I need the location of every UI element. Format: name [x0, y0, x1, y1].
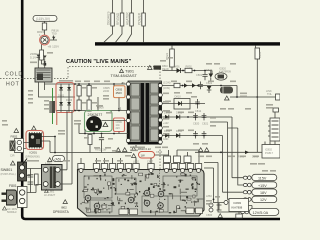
highlight box bridge (red)	[56, 83, 74, 113]
capacitor C805 highlight (orange)	[114, 86, 126, 98]
svg-text:+12V: +12V	[163, 122, 169, 125]
svg-text:C801: C801	[196, 73, 203, 77]
wire	[44, 21, 46, 23]
board pin row	[78, 158, 202, 173]
svg-text:2200: 2200	[103, 89, 110, 93]
svg-text:D801: D801	[174, 65, 181, 69]
AC inlet label	[3, 207, 7, 211]
wire secondary row1	[162, 70, 212, 72]
board bottom connector boxes	[119, 209, 128, 215]
transformer right pins	[158, 84, 162, 145]
highlight oval R820 (red)	[139, 152, 155, 159]
wire bus left thick	[22, 0, 280, 219]
output pill +15V	[243, 182, 276, 188]
tiny label texture	[2, 52, 276, 205]
connector pin P1 top	[111, 13, 115, 26]
svg-text:COLD: COLD	[5, 72, 23, 78]
output pill 18V	[243, 189, 276, 195]
wire	[104, 26, 113, 42]
svg-text:(A5): (A5)	[55, 157, 61, 161]
svg-text:RF/GND: RF/GND	[116, 12, 120, 25]
capacitor C823 dark	[220, 87, 233, 94]
switch SW801 warning	[11, 161, 16, 165]
svg-text:POWER: POWER	[138, 12, 142, 25]
wire secondary row2 CON	[162, 85, 237, 87]
vertical feed to reg	[211, 71, 213, 76]
board isolation dotted	[159, 170, 161, 213]
capacitor C813 dark	[50, 101, 56, 113]
board label I802	[63, 200, 67, 204]
capacitor C824 C825	[193, 131, 206, 139]
svg-text:DP900XTA: DP900XTA	[53, 210, 70, 214]
svg-text:(PUSH-PULL): (PUSH-PULL)	[1, 173, 16, 176]
svg-text:TNL: TNL	[267, 92, 272, 96]
svg-text:IC802: IC802	[265, 148, 272, 152]
capacitor C806	[87, 100, 91, 111]
warning + part by dashed line	[148, 66, 153, 70]
opto feedback box	[262, 145, 280, 159]
svg-text:TSM-4842AST: TSM-4842AST	[111, 73, 138, 78]
diode D811	[165, 115, 169, 120]
junction	[44, 61, 46, 63]
wire red net	[56, 112, 58, 125]
svg-text:C817: C817	[147, 160, 154, 164]
capacitor C809 highlight (red)	[114, 118, 125, 132]
gnd diode	[207, 86, 212, 90]
svg-text:#1: #1	[118, 107, 122, 111]
X capacitors	[28, 169, 34, 193]
IC801 warning	[32, 126, 37, 130]
diode D813 D814	[165, 133, 169, 138]
svg-text:5.1V: 5.1V	[30, 56, 36, 60]
connector pin P4 POWER	[142, 13, 146, 26]
connector header wires top	[113, 0, 144, 13]
regulator IC803	[229, 199, 249, 212]
svg-text:D820: D820	[206, 68, 213, 72]
svg-text:SW801: SW801	[1, 168, 13, 172]
error amp block right	[270, 118, 280, 141]
svg-text:(CON): (CON)	[163, 87, 170, 90]
boxed diodes D810	[174, 99, 190, 110]
wire	[44, 30, 46, 36]
wire	[127, 26, 132, 42]
transformer bottom labels	[132, 147, 136, 158]
module board I802	[78, 170, 205, 217]
svg-text:C820: C820	[193, 122, 200, 126]
svg-text:(CON): (CON)	[163, 81, 171, 85]
wire	[230, 86, 276, 98]
warning triangles	[116, 148, 127, 152]
svg-text:C816: C816	[156, 150, 163, 154]
svg-text:+15V: +15V	[258, 184, 267, 188]
svg-text:750: 750	[52, 32, 57, 36]
wire AC to bridge	[44, 84, 46, 90]
svg-text:(DP800/900): (DP800/900)	[25, 155, 40, 159]
transistor Q803	[41, 36, 48, 43]
live mains bus bar	[95, 42, 280, 45]
fuse F802 label	[14, 129, 19, 133]
switch connector	[18, 162, 27, 181]
wire	[50, 36, 57, 41]
highlight box Q801 (green)	[85, 111, 113, 132]
transformer T801 body	[127, 81, 162, 145]
svg-text:D801: D801	[58, 94, 65, 98]
AC inlet plug	[2, 190, 17, 205]
wire	[136, 145, 169, 164]
svg-text:(115V-5V): (115V-5V)	[36, 17, 50, 21]
svg-text:R850: R850	[258, 51, 262, 58]
svg-text:F801: F801	[9, 184, 17, 188]
junction dots	[84, 133, 86, 135]
wire row	[50, 123, 132, 153]
svg-text:#1: #1	[122, 81, 126, 85]
mosfet Q801	[87, 117, 102, 132]
diode D806	[43, 56, 47, 59]
svg-text:D803: D803	[66, 98, 73, 102]
output drop wires	[204, 122, 244, 212]
wire choke to bridge	[60, 111, 72, 184]
zener ZD803	[52, 37, 55, 40]
line filter L801	[42, 161, 63, 197]
svg-text:F802: F802	[11, 135, 18, 139]
wire switch to choke	[27, 169, 43, 193]
resistor R806	[77, 86, 81, 97]
feedback wire row	[195, 151, 262, 153]
output pill 115V	[243, 174, 276, 180]
fuse F802 connector	[15, 139, 24, 153]
transformer T801 label	[120, 69, 124, 72]
connector pin P3	[130, 13, 134, 26]
svg-text:PC817: PC817	[265, 151, 273, 155]
svg-text:50/60Hz: 50/60Hz	[7, 210, 17, 214]
svg-text:+B 125V: +B 125V	[48, 45, 60, 49]
highlight box IC801 (red)	[26, 131, 44, 150]
svg-text:R822: R822	[165, 52, 169, 60]
svg-text:18V: 18V	[260, 191, 267, 195]
wire	[24, 137, 56, 153]
relay/photocoupler IC805 block	[35, 68, 52, 82]
IC801 body	[29, 132, 42, 149]
svg-text:DEGAUS: DEGAUS	[107, 12, 111, 25]
svg-text:C821: C821	[202, 122, 209, 126]
board parts	[81, 173, 204, 215]
isolation boundary dashed	[0, 67, 160, 217]
output pill 12V	[243, 196, 276, 202]
svg-text:IC801: IC801	[30, 151, 38, 155]
wire primary rails	[75, 84, 128, 111]
svg-text:C812: C812	[195, 109, 202, 113]
wire	[114, 84, 119, 111]
resistor R817	[40, 50, 44, 60]
svg-text:HEATER: HEATER	[126, 12, 130, 25]
svg-text:C/R: C/R	[10, 154, 15, 158]
capacitor C812	[195, 99, 200, 109]
wire secondary row4 115V	[162, 117, 243, 178]
bridge rectifier D801-D804	[57, 84, 76, 113]
svg-text:2kV: 2kV	[116, 126, 121, 130]
svg-text:CAUTION "LIVE MAINS": CAUTION "LIVE MAINS"	[66, 59, 132, 65]
connector pin P2	[120, 13, 124, 26]
svg-text:12V/5.0A: 12V/5.0A	[253, 211, 269, 215]
wire secondary row5	[162, 136, 243, 193]
svg-text:L801: L801	[49, 190, 55, 194]
capacitor C820 C821	[193, 113, 206, 120]
fuse F803	[42, 23, 46, 30]
svg-text:12V: 12V	[260, 198, 267, 202]
wire drain to pin	[102, 120, 127, 122]
connector CN801	[18, 187, 28, 208]
svg-text:450V: 450V	[116, 91, 123, 95]
capacitor C810	[99, 135, 104, 145]
transformer left pins	[126, 82, 130, 143]
warning triangles	[199, 148, 209, 152]
node 115V-5V pill	[33, 16, 57, 22]
wire source down	[79, 132, 128, 134]
wire	[143, 26, 145, 42]
highlight circle Q803 (red)	[40, 35, 50, 45]
node A5 pill	[48, 158, 52, 162]
svg-text:KIA7808: KIA7808	[232, 206, 243, 210]
svg-text:C860: C860	[206, 213, 213, 217]
wire	[38, 58, 44, 69]
svg-text:LF-4542T: LF-4542T	[44, 193, 56, 197]
svg-text:IC803: IC803	[234, 201, 242, 205]
pin boxes above board	[164, 150, 200, 164]
wire green highlight net	[52, 88, 54, 124]
svg-text:GND: GND	[163, 138, 169, 141]
wire	[116, 26, 123, 42]
wire secondary row3	[162, 103, 205, 105]
resistor R822	[171, 46, 173, 49]
svg-text:L860: L860	[206, 194, 212, 198]
diode D805	[37, 55, 41, 58]
svg-text:115V: 115V	[258, 176, 267, 180]
svg-text:1W: 1W	[141, 154, 146, 158]
junction dots	[74, 83, 76, 85]
long drop wire from bus	[255, 46, 257, 48]
resistor R807	[77, 100, 81, 111]
wire	[41, 45, 43, 51]
svg-text:D810: D810	[175, 95, 182, 99]
resistor R808	[87, 86, 91, 97]
output pill 12V/5.0A	[241, 208, 279, 215]
svg-text:HOT: HOT	[6, 81, 20, 87]
resistor R810	[88, 135, 92, 145]
svg-text:I802: I802	[61, 206, 67, 210]
